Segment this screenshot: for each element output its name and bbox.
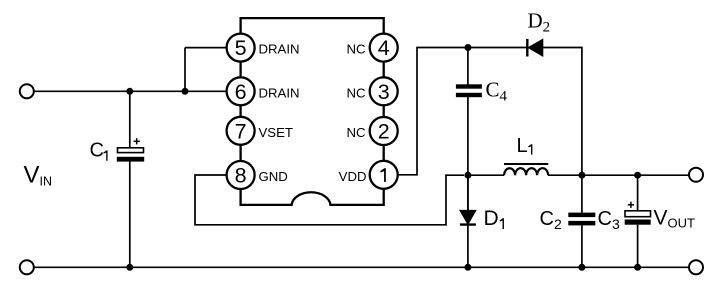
node: pin5/pin6 junction xyxy=(182,88,189,95)
node: input/C1 junction xyxy=(126,88,133,95)
wire: top rail D2 segment left xyxy=(464,47,527,49)
wire: output rail xyxy=(582,174,689,176)
svg-text:8: 8 xyxy=(235,164,247,188)
node: switch node junction xyxy=(464,172,471,179)
pin 6 xyxy=(227,77,255,105)
svg-text:7: 7 xyxy=(235,119,247,143)
op-amp U1 IC body outline xyxy=(241,18,384,205)
wire: bottom rail xyxy=(34,266,689,268)
node: C3 top junction xyxy=(634,172,641,179)
terminal bottom-right xyxy=(689,260,703,274)
terminal top-left xyxy=(20,84,34,98)
node: C4 top junction xyxy=(464,44,471,51)
svg-text:D: D xyxy=(484,207,499,230)
node: L1 right junction xyxy=(578,172,585,179)
wire: VDD pin1 to top xyxy=(398,48,464,175)
svg-text:2: 2 xyxy=(378,120,390,144)
diode D2 xyxy=(527,39,543,57)
wire: pin5 branch vertical xyxy=(184,48,186,92)
pin 7 xyxy=(227,117,255,145)
svg-text:6: 6 xyxy=(235,80,247,104)
terminal bottom-left xyxy=(20,260,34,274)
wire: C4 vertical bottom xyxy=(467,97,469,211)
svg-text:NC: NC xyxy=(346,85,366,100)
wire: top-left input rail xyxy=(34,90,227,92)
capacitor C2 xyxy=(568,213,595,226)
svg-text:VSET: VSET xyxy=(259,125,293,140)
svg-text:L: L xyxy=(517,135,528,157)
svg-text:NC: NC xyxy=(346,42,366,57)
pin 2 xyxy=(370,117,398,145)
pin 4 xyxy=(370,34,398,62)
node: bottom rail junctions xyxy=(126,264,133,271)
inductor L1 xyxy=(468,164,582,175)
wire: top rail D2 segment right xyxy=(543,48,582,176)
svg-text:DRAIN: DRAIN xyxy=(259,85,300,100)
pin 3 xyxy=(370,77,398,105)
diode D1 xyxy=(460,175,476,267)
terminal top-right xyxy=(689,168,703,182)
svg-text:4: 4 xyxy=(378,36,390,60)
wire: pin5 branch horizontal xyxy=(185,47,227,49)
svg-text:NC: NC xyxy=(346,125,366,140)
pin 8 xyxy=(227,161,255,189)
pin 1 xyxy=(370,161,398,189)
svg-text:3: 3 xyxy=(378,80,390,104)
capacitor C3 (polarized) xyxy=(625,202,651,225)
wire: C2 vertical xyxy=(581,175,583,213)
wire: GND pin8 loop xyxy=(195,175,464,225)
wire: C4 vertical top xyxy=(467,48,469,85)
svg-text:C: C xyxy=(90,140,104,162)
svg-text:5: 5 xyxy=(235,36,247,60)
wire: C1 vertical top xyxy=(129,91,131,148)
wire: C1 vertical bottom xyxy=(129,161,131,267)
svg-text:DRAIN: DRAIN xyxy=(259,42,300,57)
svg-text:VDD: VDD xyxy=(339,169,367,184)
capacitor C1 (polarized) xyxy=(117,138,144,161)
wire: C3 vertical xyxy=(637,175,639,211)
pin 5 xyxy=(227,34,255,62)
capacitor C4 xyxy=(456,84,482,97)
svg-text:GND: GND xyxy=(259,169,288,184)
